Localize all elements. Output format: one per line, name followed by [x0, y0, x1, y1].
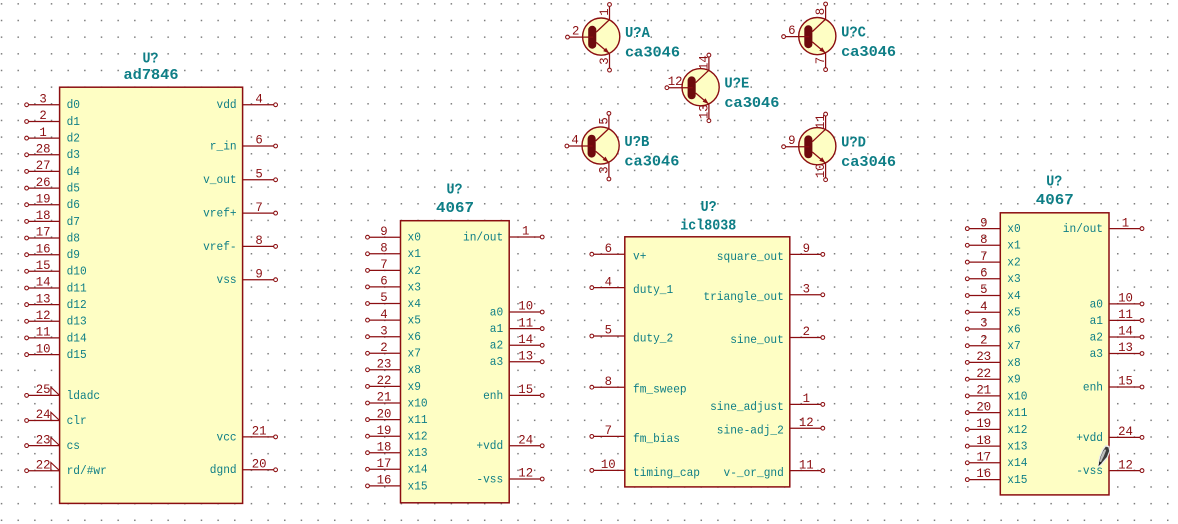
svg-text:10: 10 [36, 341, 51, 356]
svg-text:19: 19 [377, 423, 392, 438]
4067L pin 9 (x0) [366, 224, 421, 245]
svg-text:1: 1 [522, 224, 530, 239]
svg-text:duty_1: duty_1 [633, 283, 673, 297]
svg-text:x11: x11 [1007, 406, 1027, 420]
svg-text:14: 14 [697, 55, 712, 70]
svg-text:2: 2 [380, 340, 387, 355]
transistor U?E ca3046 body [682, 69, 719, 106]
svg-text:11: 11 [518, 315, 533, 330]
svg-text:18: 18 [377, 439, 392, 454]
U?C emitter pin 7 [813, 53, 828, 71]
svg-text:x13: x13 [1007, 440, 1027, 454]
svg-text:ad7846: ad7846 [124, 67, 179, 84]
icl8038 pin 1 (sine_adjust) [710, 391, 825, 414]
svg-text:clr: clr [67, 414, 87, 428]
svg-text:x9: x9 [1007, 373, 1020, 387]
svg-text:12: 12 [799, 415, 814, 430]
svg-text:21: 21 [377, 390, 392, 405]
svg-text:15: 15 [36, 258, 51, 273]
U?B value label ca3046 [624, 154, 679, 171]
svg-text:d7: d7 [67, 215, 80, 229]
svg-text:x1: x1 [408, 247, 421, 261]
svg-text:28: 28 [36, 142, 51, 157]
4067R pin 1 (in/out) [1063, 215, 1144, 236]
svg-text:U?D: U?D [841, 135, 866, 152]
svg-text:d12: d12 [67, 298, 87, 312]
svg-text:7: 7 [255, 200, 262, 215]
4067L pin 19 (x12) [366, 423, 428, 444]
svg-text:sine_adjust: sine_adjust [710, 400, 784, 414]
svg-text:4: 4 [380, 307, 388, 322]
svg-text:2: 2 [803, 324, 810, 339]
4067R pin 4 (x5) [965, 299, 1020, 320]
svg-text:vss: vss [217, 273, 237, 287]
svg-text:x0: x0 [408, 231, 421, 245]
4067L pin 23 (x8) [366, 357, 421, 378]
svg-text:x7: x7 [408, 347, 421, 361]
svg-text:7: 7 [813, 57, 828, 64]
svg-text:U?: U? [143, 51, 159, 68]
svg-text:8: 8 [605, 374, 612, 389]
svg-text:2: 2 [980, 332, 987, 347]
4067R pin 9 (x0) [965, 215, 1020, 236]
4067R pin 3 (x6) [965, 316, 1020, 337]
svg-text:d10: d10 [67, 265, 87, 279]
4067L pin 8 (x1) [366, 241, 421, 262]
4067R pin 8 (x1) [965, 232, 1020, 253]
U?C collector pin 8 [813, 2, 828, 19]
svg-text:2: 2 [572, 24, 579, 39]
svg-text:3: 3 [803, 282, 810, 297]
svg-text:27: 27 [36, 158, 51, 173]
svg-text:a0: a0 [1090, 297, 1103, 311]
icl8038 pin 3 (triangle_out) [703, 282, 824, 305]
icl8038 pin 10 (timing_cap) [590, 457, 700, 480]
svg-text:14: 14 [518, 332, 533, 347]
svg-text:a2: a2 [490, 339, 503, 353]
svg-text:15: 15 [1118, 374, 1133, 389]
ad7846 pin 13 (d12) [25, 291, 87, 312]
svg-text:17: 17 [976, 450, 991, 465]
svg-text:vref-: vref- [203, 240, 237, 254]
svg-text:fm_sweep: fm_sweep [633, 383, 687, 397]
svg-text:ldadc: ldadc [67, 389, 101, 403]
svg-text:5: 5 [980, 282, 987, 297]
svg-text:1: 1 [39, 125, 47, 140]
svg-text:20: 20 [377, 406, 392, 421]
svg-text:x6: x6 [1007, 322, 1020, 336]
svg-text:11: 11 [36, 325, 51, 340]
ad7846 pin 4 (vdd) [217, 92, 278, 113]
svg-text:d4: d4 [67, 165, 80, 179]
svg-text:x9: x9 [408, 380, 421, 394]
svg-text:a1: a1 [1090, 314, 1103, 328]
svg-text:U?B: U?B [624, 134, 649, 151]
U?E reference label [724, 76, 749, 93]
svg-text:square_out: square_out [717, 250, 784, 264]
svg-text:5: 5 [255, 167, 262, 182]
4067R pin 7 (x2) [965, 249, 1020, 270]
svg-text:ca3046: ca3046 [724, 95, 779, 112]
waveform generator IC U? icl8038 body [625, 237, 790, 487]
4067L pin 15 (enh) [483, 382, 544, 403]
U?D emitter pin 10 [813, 163, 828, 181]
U? reference label (ad7846) [143, 51, 159, 68]
4067L pin 7 (x2) [366, 257, 421, 278]
svg-text:14: 14 [1118, 324, 1133, 339]
svg-text:20: 20 [976, 399, 991, 414]
svg-text:13: 13 [1118, 340, 1133, 355]
svg-text:2: 2 [39, 108, 46, 123]
svg-text:a3: a3 [1090, 347, 1103, 361]
ad7846 pin 21 (vcc) [217, 424, 278, 445]
svg-text:x12: x12 [1007, 423, 1027, 437]
svg-text:x1: x1 [1007, 239, 1020, 253]
svg-text:x3: x3 [408, 280, 421, 294]
svg-text:20: 20 [252, 457, 267, 472]
svg-text:19: 19 [976, 416, 991, 431]
ad7846 pin 27 (d4) [25, 158, 80, 179]
ad7846 pin 23 (cs) active-low [25, 432, 80, 453]
svg-text:ca3046: ca3046 [624, 154, 679, 171]
U? reference label (4067 left) [447, 182, 463, 199]
svg-text:6: 6 [380, 274, 387, 289]
svg-text:16: 16 [36, 241, 51, 256]
svg-text:17: 17 [36, 225, 51, 240]
4067R pin 13 (a3) [1090, 340, 1144, 361]
ad7846 pin 3 (d0) [25, 92, 80, 113]
ad7846 pin 6 (r_in) [210, 133, 278, 154]
svg-text:cs: cs [67, 439, 80, 453]
svg-text:dgnd: dgnd [210, 463, 237, 477]
svg-text:12: 12 [1118, 457, 1133, 472]
4067R pin 24 (+vdd) [1076, 424, 1144, 445]
svg-text:triangle_out: triangle_out [703, 290, 783, 304]
svg-text:16: 16 [976, 466, 991, 481]
U?C reference label [841, 25, 866, 42]
4067R pin 16 (x15) [965, 466, 1027, 487]
4067L pin 12 (-vss) [476, 466, 544, 487]
svg-text:U?: U? [1046, 174, 1062, 191]
svg-text:6: 6 [255, 133, 262, 148]
U?E emitter pin 13 [697, 104, 712, 122]
svg-text:8: 8 [813, 8, 828, 15]
svg-text:6: 6 [605, 241, 612, 256]
4067R pin 6 (x3) [965, 266, 1020, 287]
4067L pin 13 (a3) [490, 349, 544, 370]
svg-text:4067: 4067 [1036, 192, 1074, 209]
U?B base pin 4 [565, 133, 593, 148]
U? reference label (icl8038) [701, 199, 717, 216]
4067R pin 23 (x8) [965, 349, 1020, 370]
svg-text:4067: 4067 [436, 200, 474, 217]
icl8038 pin 8 (fm_sweep) [590, 374, 687, 397]
4067L pin 18 (x13) [366, 439, 428, 460]
svg-text:a2: a2 [1090, 330, 1103, 344]
svg-text:a3: a3 [490, 355, 503, 369]
svg-text:a0: a0 [490, 305, 503, 319]
icl8038 pin 7 (fm_bias) [590, 423, 680, 446]
svg-text:d8: d8 [67, 231, 80, 245]
4067R pin 19 (x12) [965, 416, 1027, 437]
transistor U?B ca3046 body [582, 127, 619, 164]
svg-text:15: 15 [518, 382, 533, 397]
svg-text:5: 5 [605, 323, 612, 338]
U?B collector pin 5 [597, 112, 612, 129]
U?B reference label [624, 134, 649, 151]
svg-text:U?E: U?E [724, 76, 749, 93]
4067R pin 20 (x11) [965, 399, 1027, 420]
svg-text:12: 12 [668, 74, 683, 89]
svg-text:x8: x8 [408, 363, 421, 377]
svg-text:d15: d15 [67, 348, 87, 362]
U?C base pin 6 [782, 23, 810, 38]
svg-text:5: 5 [380, 290, 387, 305]
ad7846 pin 19 (d6) [25, 191, 80, 212]
ad7846 pin 24 (clr) active-low [25, 407, 87, 428]
svg-text:6: 6 [980, 266, 987, 281]
svg-text:11: 11 [1118, 307, 1133, 322]
4067 value label (left) [436, 200, 474, 217]
4067L pin 6 (x3) [366, 274, 421, 295]
svg-text:22: 22 [377, 373, 392, 388]
svg-text:4: 4 [571, 133, 579, 148]
svg-text:4: 4 [980, 299, 988, 314]
svg-text:16: 16 [377, 473, 392, 488]
svg-text:U?C: U?C [841, 25, 866, 42]
4067L pin 20 (x11) [366, 406, 428, 427]
svg-text:9: 9 [803, 241, 810, 256]
U?A collector pin 1 [597, 3, 612, 20]
svg-text:6: 6 [788, 23, 795, 38]
svg-text:d13: d13 [67, 315, 87, 329]
svg-text:3: 3 [597, 57, 612, 64]
svg-text:x4: x4 [1007, 289, 1020, 303]
U?B emitter pin 3 [597, 163, 612, 181]
svg-text:d3: d3 [67, 148, 80, 162]
ad7846 pin 2 (d1) [25, 108, 80, 129]
svg-text:18: 18 [976, 433, 991, 448]
svg-text:vref+: vref+ [203, 207, 237, 221]
icl8038 pin 12 (sine-adj_2) [717, 415, 825, 438]
svg-text:3: 3 [980, 316, 987, 331]
svg-text:x11: x11 [408, 413, 428, 427]
svg-text:x14: x14 [1007, 456, 1027, 470]
svg-text:d2: d2 [67, 132, 80, 146]
4067L pin 14 (a2) [490, 332, 544, 353]
ad7846 pin 16 (d9) [25, 241, 80, 262]
U?E value label ca3046 [724, 95, 779, 112]
ad7846 pin 5 (v_out) [203, 167, 277, 188]
icl8038 pin 6 (v+) [590, 241, 647, 264]
ad7846 pin 9 (vss) [217, 266, 278, 287]
svg-text:24: 24 [1118, 424, 1133, 439]
svg-text:v_out: v_out [203, 173, 237, 187]
svg-text:x7: x7 [1007, 339, 1020, 353]
svg-text:ca3046: ca3046 [841, 154, 896, 171]
svg-text:11: 11 [799, 457, 814, 472]
ad7846 pin 20 (dgnd) [210, 457, 278, 478]
4067L pin 5 (x4) [366, 290, 421, 311]
svg-text:x2: x2 [1007, 256, 1020, 270]
svg-text:x0: x0 [1007, 222, 1020, 236]
svg-text:x10: x10 [408, 396, 428, 410]
4067L pin 1 (in/out) [463, 224, 544, 245]
svg-text:12: 12 [518, 466, 533, 481]
ad7846 pin 7 (vref+) [203, 200, 277, 221]
4067 value label (right) [1036, 192, 1074, 209]
svg-text:8: 8 [255, 233, 262, 248]
svg-text:-vss: -vss [476, 472, 503, 486]
U?D base pin 9 [782, 133, 810, 148]
svg-text:26: 26 [36, 175, 51, 190]
4067R pin 22 (x9) [965, 366, 1020, 387]
svg-text:21: 21 [252, 424, 267, 439]
svg-text:14: 14 [36, 275, 51, 290]
U?C value label ca3046 [841, 44, 896, 61]
ad7846 pin 8 (vref-) [203, 233, 277, 254]
svg-text:+vdd: +vdd [1076, 431, 1103, 445]
svg-text:+vdd: +vdd [476, 439, 503, 453]
4067L pin 16 (x15) [366, 473, 428, 494]
4067R pin 18 (x13) [965, 433, 1027, 454]
ad7846 pin 17 (d8) [25, 225, 80, 246]
ad7846 pin 25 (ldadc) active-low [25, 382, 100, 403]
icl8038 pin 9 (square_out) [717, 241, 825, 264]
svg-text:3: 3 [380, 323, 387, 338]
4067L pin 10 (a0) [490, 299, 544, 320]
icl8038 pin 2 (sine_out) [730, 324, 824, 347]
svg-text:x15: x15 [1007, 473, 1027, 487]
U?A value label ca3046 [625, 45, 680, 62]
svg-text:13: 13 [518, 349, 533, 364]
svg-text:x12: x12 [408, 430, 428, 444]
4067R pin 15 (enh) [1083, 374, 1144, 395]
svg-text:1: 1 [803, 391, 811, 406]
U?A emitter pin 3 [597, 54, 612, 72]
svg-text:x10: x10 [1007, 389, 1027, 403]
svg-text:1: 1 [597, 8, 612, 16]
svg-text:d1: d1 [67, 115, 80, 129]
svg-text:7: 7 [380, 257, 387, 272]
4067L pin 17 (x14) [366, 456, 428, 477]
svg-text:7: 7 [605, 423, 612, 438]
svg-text:12: 12 [36, 308, 51, 323]
U?D reference label [841, 135, 866, 152]
icl8038 pin 11 (v-_or_gnd) [724, 457, 825, 480]
svg-text:10: 10 [1118, 291, 1133, 306]
svg-text:d0: d0 [67, 98, 80, 112]
4067R pin 11 (a1) [1090, 307, 1144, 328]
icl8038 value label [680, 217, 736, 234]
svg-text:9: 9 [788, 133, 795, 148]
svg-text:icl8038: icl8038 [680, 217, 736, 234]
svg-text:r_in: r_in [210, 139, 237, 153]
svg-text:x3: x3 [1007, 272, 1020, 286]
4067L pin 4 (x5) [366, 307, 421, 328]
U?D value label ca3046 [841, 154, 896, 171]
svg-text:x4: x4 [408, 297, 421, 311]
svg-text:ca3046: ca3046 [841, 44, 896, 61]
svg-text:23: 23 [36, 432, 51, 447]
4067L pin 21 (x10) [366, 390, 428, 411]
svg-text:x5: x5 [408, 314, 421, 328]
svg-text:18: 18 [36, 208, 51, 223]
multiplexer IC U? 4067 (left) body [401, 221, 510, 503]
svg-text:in/out: in/out [463, 230, 503, 244]
icl8038 pin 5 (duty_2) [590, 323, 673, 346]
4067L pin 22 (x9) [366, 373, 421, 394]
svg-text:1: 1 [1122, 215, 1130, 230]
svg-text:a1: a1 [490, 322, 503, 336]
U?A base pin 2 [566, 24, 594, 39]
svg-text:7: 7 [980, 249, 987, 264]
svg-text:x15: x15 [408, 479, 428, 493]
svg-text:U?: U? [447, 182, 463, 199]
svg-text:enh: enh [483, 389, 503, 403]
4067R pin 12 (-vss) [1076, 457, 1144, 478]
svg-text:3: 3 [597, 166, 612, 173]
svg-text:9: 9 [380, 224, 387, 239]
4067L pin 11 (a1) [490, 315, 544, 336]
svg-text:21: 21 [976, 383, 991, 398]
svg-text:rd/#wr: rd/#wr [67, 464, 107, 478]
transistor U?C ca3046 body [799, 17, 836, 54]
svg-text:19: 19 [36, 191, 51, 206]
svg-text:ca3046: ca3046 [625, 45, 680, 62]
ad7846 pin 12 (d13) [25, 308, 87, 329]
4067R pin 14 (a2) [1090, 324, 1144, 345]
svg-text:10: 10 [813, 163, 828, 178]
U?D collector pin 11 [813, 112, 828, 129]
svg-text:duty_2: duty_2 [633, 331, 673, 345]
svg-text:x8: x8 [1007, 356, 1020, 370]
ad7846 value label [124, 67, 179, 84]
svg-text:25: 25 [36, 382, 51, 397]
svg-text:x13: x13 [408, 446, 428, 460]
svg-text:v+: v+ [633, 250, 646, 264]
icl8038 pin 4 (duty_1) [590, 274, 673, 297]
ad7846 pin 22 (rd/#wr) active-low [25, 457, 107, 478]
svg-text:x14: x14 [408, 463, 428, 477]
svg-text:13: 13 [36, 291, 51, 306]
svg-text:d11: d11 [67, 281, 87, 295]
ad7846 pin 15 (d10) [25, 258, 87, 279]
svg-text:sine-adj_2: sine-adj_2 [717, 424, 784, 438]
svg-text:10: 10 [518, 299, 533, 314]
svg-text:timing_cap: timing_cap [633, 466, 700, 480]
ad7846 pin 26 (d5) [25, 175, 80, 196]
op-amp/DAC IC U? ad7846 body [60, 87, 243, 503]
svg-text:x5: x5 [1007, 306, 1020, 320]
svg-text:sine_out: sine_out [730, 333, 784, 347]
4067R pin 17 (x14) [965, 450, 1027, 471]
svg-text:22: 22 [976, 366, 991, 381]
svg-text:24: 24 [36, 407, 51, 422]
ad7846 pin 1 (d2) [25, 125, 80, 146]
svg-text:vcc: vcc [217, 430, 237, 444]
ad7846 pin 14 (d11) [25, 275, 87, 296]
U?E collector pin 14 [697, 53, 712, 70]
4067L pin 3 (x6) [366, 323, 421, 344]
svg-text:11: 11 [813, 114, 828, 129]
svg-text:d6: d6 [67, 198, 80, 212]
svg-text:9: 9 [255, 266, 262, 281]
svg-text:vdd: vdd [217, 98, 237, 112]
U? reference label (4067 right) [1046, 174, 1062, 191]
svg-text:23: 23 [976, 349, 991, 364]
svg-text:13: 13 [697, 104, 712, 119]
